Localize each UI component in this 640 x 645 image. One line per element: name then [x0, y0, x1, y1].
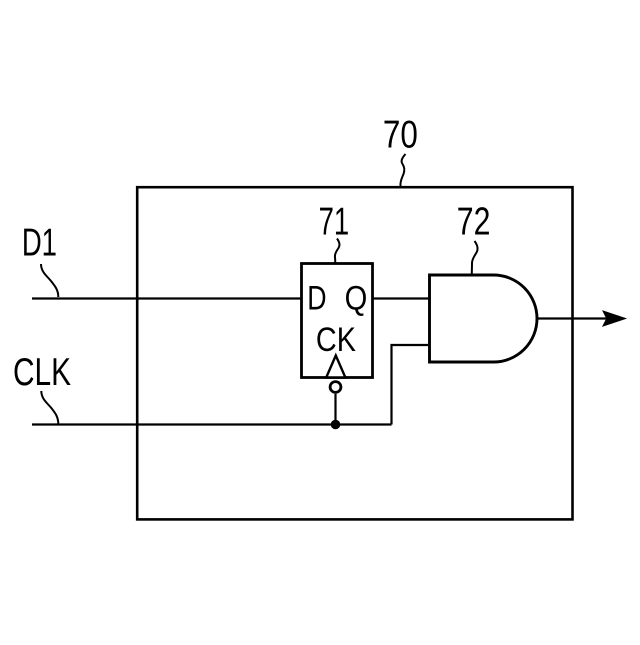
- label 72: [457, 200, 491, 244]
- flip-flop U71 body: [302, 264, 373, 378]
- svg-text:D: D: [307, 278, 326, 317]
- AND gate 72: [430, 275, 538, 362]
- leader squiggle for CLK: [41, 391, 58, 424]
- inverted clock bubble: [330, 382, 341, 393]
- wire: AND output: [537, 317, 607, 319]
- svg-text:CLK: CLK: [13, 350, 71, 394]
- leader squiggle for 71: [335, 239, 340, 264]
- label 71: [319, 200, 350, 244]
- svg-text:Q: Q: [345, 278, 368, 317]
- label 70: [383, 112, 418, 156]
- clock edge triangle: [326, 356, 345, 378]
- wire: Q to AND gate: [373, 297, 430, 299]
- wire: CLK input: [32, 423, 392, 425]
- svg-text:70: 70: [383, 112, 418, 156]
- outer block 70: [137, 187, 572, 519]
- pin label CK: [316, 320, 356, 359]
- label CLK: [13, 350, 71, 394]
- svg-text:72: 72: [457, 200, 491, 244]
- leader squiggle for 70: [400, 154, 405, 186]
- pin label D: [307, 278, 326, 317]
- junction dot: [331, 420, 341, 430]
- svg-text:D1: D1: [22, 221, 57, 265]
- pin label Q: [345, 278, 368, 317]
- wire: bubble to CLK line: [334, 394, 336, 425]
- label D1: [22, 221, 57, 265]
- output arrowhead: [603, 311, 626, 326]
- svg-text:71: 71: [319, 200, 350, 244]
- wire: D1 input: [32, 297, 302, 299]
- leader squiggle for 72: [472, 241, 478, 274]
- wire: CLK branch up-right to AND gate: [392, 345, 430, 425]
- leader squiggle for D1: [41, 264, 58, 297]
